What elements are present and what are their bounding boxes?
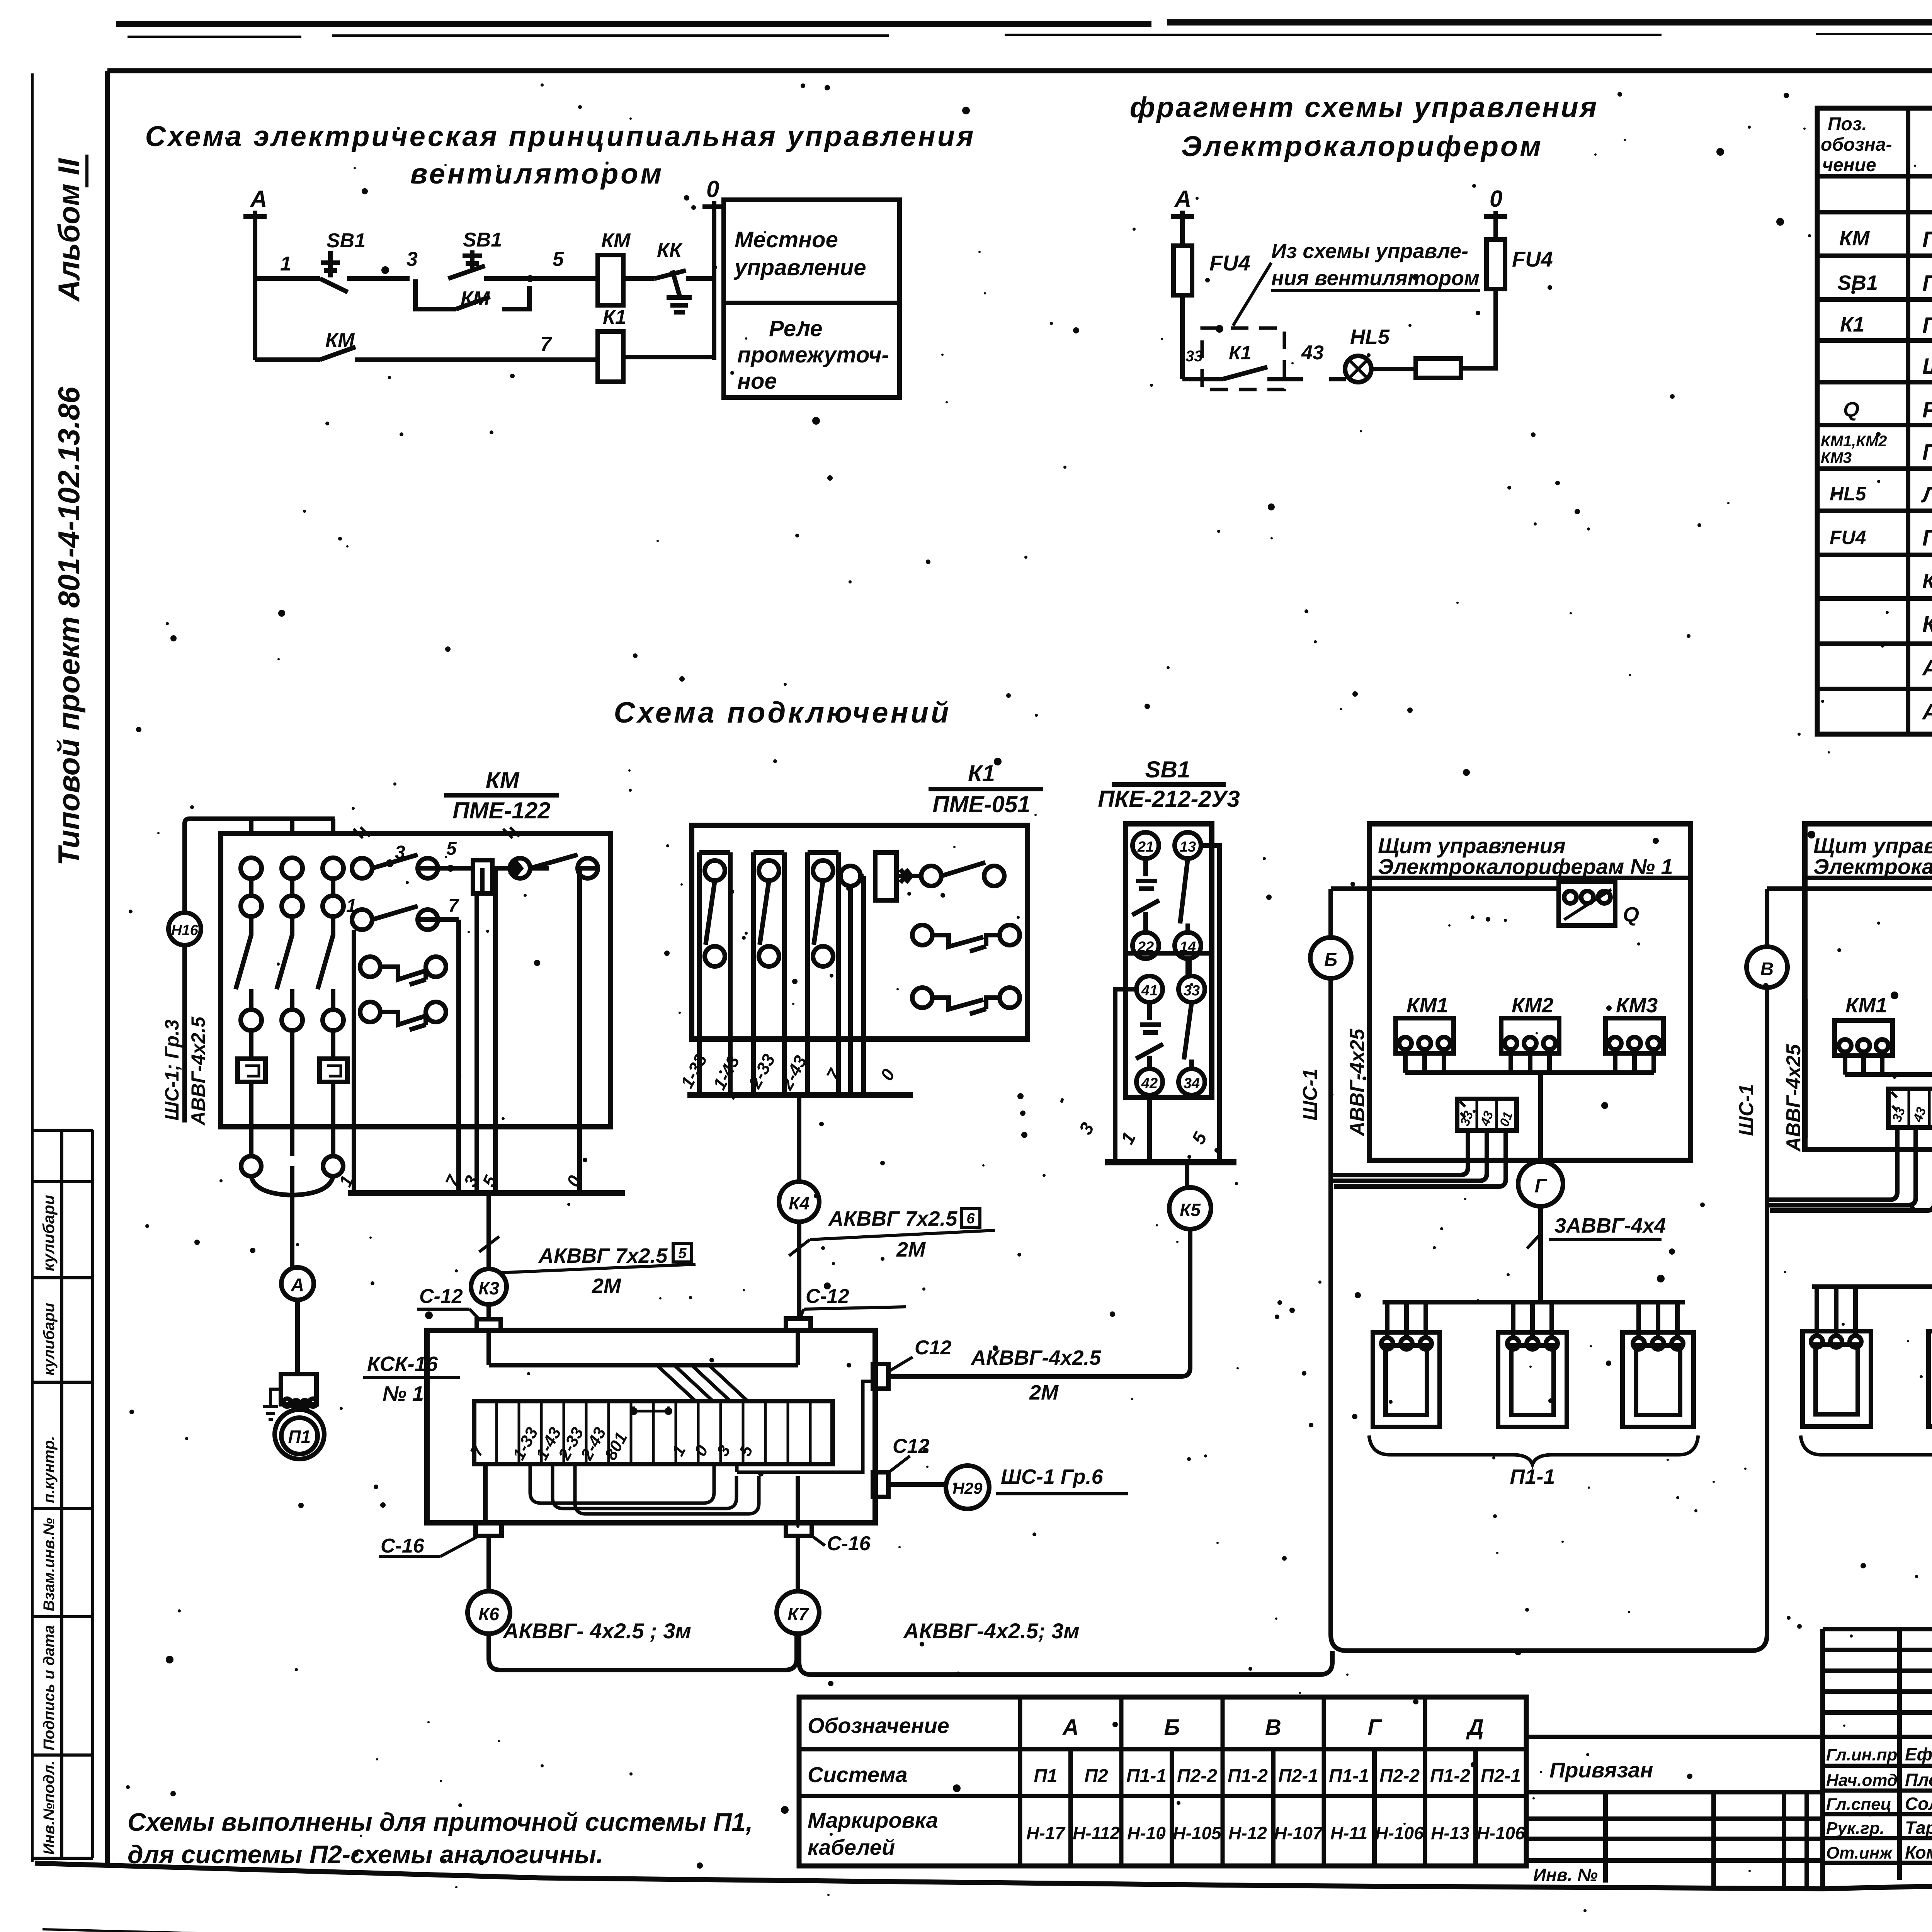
svg-text:Д: Д (1466, 1715, 1484, 1740)
svg-text:ПМЕ-051: ПМЕ-051 (932, 791, 1030, 817)
svg-text:Н-11: Н-11 (1330, 1823, 1367, 1843)
svg-text:АКВВГ-4х2.5: АКВВГ-4х2.5 (970, 1346, 1101, 1369)
top border double line (116, 21, 1932, 24)
svg-text:FU4: FU4 (1830, 527, 1866, 548)
svg-text:Пускатель магнитный: Пускатель магнитный (1922, 227, 1932, 252)
main frame (105, 71, 110, 1866)
fuse FU4 left (1173, 246, 1192, 295)
svg-text:5: 5 (446, 838, 457, 859)
svg-text:управление: управление (733, 255, 866, 280)
svg-text:От.инж: От.инж (1826, 1844, 1893, 1862)
aux 5-6 (912, 988, 932, 1008)
svg-text:КМ: КМ (1839, 227, 1870, 250)
terminal strip (1888, 1089, 1932, 1128)
G circle (1518, 1162, 1563, 1206)
K5 (1185, 1162, 1189, 1186)
svg-text:АКВВГ 7х2.5 мм²: АКВВГ 7х2.5 мм² (1922, 699, 1932, 724)
svg-text:№ 1: № 1 (383, 1382, 424, 1405)
SECTION:K1 (677, 760, 1043, 1318)
wire rung1 (255, 276, 320, 281)
svg-text:ШС-1: ШС-1 (1735, 1084, 1758, 1136)
svg-text:С12: С12 (893, 1435, 929, 1458)
svg-text:Н-12: Н-12 (1228, 1823, 1267, 1843)
svg-text:Реле: Реле (769, 316, 822, 341)
svg-text:Соловей: Соловей (1905, 1794, 1932, 1814)
svg-text:Б: Б (1324, 950, 1337, 970)
svg-text:SB1: SB1 (327, 230, 366, 252)
svg-text:Коробка соединительная КСК-16Т: Коробка соединительная КСК-16ТУ36.1753-7… (1922, 570, 1932, 593)
svg-text:К6: К6 (478, 1604, 499, 1624)
svg-text:Подпись и дата: Подпись и дата (41, 1625, 58, 1750)
svg-text:34: 34 (1184, 1075, 1200, 1092)
K6 (486, 1536, 491, 1591)
svg-text:FU4: FU4 (1209, 251, 1250, 275)
svg-text:п.кунтр.: п.кунтр. (41, 1436, 58, 1503)
svg-text:для системы П2-схемы аналогичн: для системы П2-схемы аналогичны. (128, 1840, 603, 1869)
svg-text:кулибари: кулибари (39, 1195, 58, 1271)
resistor (1416, 359, 1461, 378)
svg-text:Нач.отд: Нач.отд (1826, 1771, 1898, 1790)
svg-text:Схема электрическая принципиал: Схема электрическая принципиальная управ… (145, 120, 976, 152)
cable designation table (799, 1697, 1526, 1866)
svg-text:22: 22 (1137, 939, 1154, 955)
H16 circle (168, 913, 201, 945)
svg-text:кулибари: кулибари (41, 1303, 58, 1376)
svg-text:чение: чение (1822, 155, 1876, 175)
svg-text:Рубильник: Рубильник (1922, 397, 1932, 422)
svg-text:АВВГ-4х25: АВВГ-4х25 (1782, 1044, 1805, 1152)
svg-text:Инв.№подл.: Инв.№подл. (41, 1760, 58, 1855)
strip exits bend left (1331, 1131, 1468, 1175)
svg-text:43: 43 (1301, 342, 1324, 364)
legend box (724, 200, 900, 398)
vertical V1 down and across H2 (1331, 1175, 1767, 1651)
V circle (1747, 947, 1787, 988)
svg-text:АВВГ-4х2.5: АВВГ-4х2.5 (187, 1016, 209, 1126)
svg-text:К1: К1 (968, 760, 995, 786)
svg-text:HL5: HL5 (1830, 483, 1867, 505)
heater bus (1812, 1284, 1932, 1289)
svg-text:Щит управления электрокалорифе: Щит управления электрокалориферам (1922, 354, 1932, 379)
svg-text:С12: С12 (915, 1337, 951, 1359)
svg-text:2М: 2М (1029, 1381, 1059, 1404)
svg-text:КСК-16: КСК-16 (367, 1352, 438, 1376)
svg-text:Маркировка: Маркировка (808, 1808, 938, 1832)
svg-text:КК: КК (657, 239, 683, 262)
SECTION:KM (161, 767, 696, 1459)
svg-text:7: 7 (448, 896, 459, 916)
svg-text:Рук.гр.: Рук.гр. (1826, 1819, 1884, 1838)
left paper edge line (31, 73, 34, 1862)
terminal strip (474, 1401, 833, 1464)
svg-text:Q: Q (1843, 398, 1859, 421)
svg-text:КМ: КМ (601, 230, 631, 252)
svg-text:Ефремов: Ефремов (1905, 1744, 1932, 1764)
svg-text:КМ1: КМ1 (1406, 994, 1448, 1017)
svg-text:Н-13: Н-13 (1431, 1823, 1469, 1843)
svg-text:П1-1: П1-1 (1126, 1766, 1167, 1786)
svg-text:Пост управления кнопочный: Пост управления кнопочный (1922, 271, 1932, 296)
svg-text:Типовой проект 801-4-102.13.86: Типовой проект 801-4-102.13.86 (52, 386, 86, 866)
aux 3-4 (912, 925, 932, 945)
svg-text:АКВВГ 4х2.5 мм²: АКВВГ 4х2.5 мм² (1922, 655, 1932, 680)
svg-text:2М: 2М (592, 1274, 621, 1298)
svg-text:П1-1: П1-1 (1510, 1465, 1555, 1488)
brace (1801, 1435, 1932, 1464)
svg-text:33: 33 (1185, 348, 1203, 365)
svg-text:П2-1: П2-1 (1481, 1766, 1521, 1786)
svg-text:Гл.ин.пр.: Гл.ин.пр. (1826, 1745, 1902, 1764)
svg-text:2М: 2М (896, 1238, 926, 1261)
svg-text:промежуточ-: промежуточ- (737, 342, 889, 367)
svg-text:К1: К1 (603, 306, 626, 328)
KM aux parallel contact (415, 279, 529, 309)
svg-text:FU4: FU4 (1512, 247, 1553, 271)
svg-text:ное: ное (737, 369, 777, 394)
B circle (1310, 937, 1351, 978)
svg-text:Привязан: Привязан (1549, 1758, 1653, 1782)
fuse FU4 right (1486, 240, 1505, 289)
vertical drops to bus (354, 868, 580, 1191)
svg-text:Н-10: Н-10 (1127, 1823, 1166, 1843)
top entry ticks (354, 827, 519, 838)
svg-text:Пускатель магнитный ~220В ПМЕ-: Пускатель магнитный ~220В ПМЕ-051 (1922, 313, 1932, 338)
lower button (1136, 976, 1163, 1002)
SECTION:SB1 (889, 757, 1240, 1404)
svg-text:ШС-1 Гр.6: ШС-1 Гр.6 (1001, 1465, 1104, 1488)
svg-text:П2-2: П2-2 (1379, 1766, 1420, 1786)
svg-text:ния вентилятором: ния вентилятором (1271, 267, 1480, 290)
svg-text:Тарков: Тарков (1905, 1818, 1932, 1838)
SECTION:BOTTOM (799, 1629, 1932, 1910)
svg-text:К4: К4 (789, 1193, 810, 1213)
title block (1823, 1629, 1932, 1889)
svg-text:42: 42 (1141, 1075, 1158, 1092)
svg-text:Инв. №: Инв. № (1533, 1865, 1598, 1885)
bottom bus (348, 1190, 625, 1196)
svg-text:Комарова: Комарова (1905, 1842, 1932, 1862)
heater bus (1383, 1300, 1685, 1304)
heaters (1373, 1332, 1694, 1427)
svg-text:HL5: HL5 (1350, 325, 1390, 349)
SECTION:TOPMID (1130, 91, 1599, 389)
svg-text:Электрокалориферам № 1: Электрокалориферам № 1 (1378, 854, 1673, 879)
svg-text:К3: К3 (478, 1278, 499, 1298)
svg-text:К1: К1 (1229, 342, 1252, 364)
svg-text:В: В (1265, 1715, 1281, 1740)
svg-text:Гл.спец: Гл.спец (1826, 1795, 1891, 1814)
svg-text:КМ: КМ (486, 767, 520, 793)
svg-text:Электрокалориферам № 2: Электрокалориферам № 2 (1813, 854, 1932, 879)
svg-text:фрагмент схемы управления: фрагмент схемы управления (1130, 91, 1599, 123)
svg-text:П2-1: П2-1 (1278, 1766, 1318, 1786)
svg-text:SB1: SB1 (463, 229, 502, 251)
svg-text:КМ2: КМ2 (1512, 994, 1553, 1017)
svg-text:ШС-1: ШС-1 (1299, 1068, 1321, 1121)
inner wires (489, 1330, 798, 1365)
svg-text:Г: Г (1535, 1175, 1548, 1197)
svg-text:АКВВГ 7х2.5: АКВВГ 7х2.5 (538, 1244, 668, 1267)
svg-text:Схемы выполнены для приточной: Схемы выполнены для приточной системы П1… (128, 1808, 753, 1836)
svg-text:А: А (291, 1275, 304, 1296)
svg-text:КМ1: КМ1 (1845, 994, 1887, 1017)
A circle and motor (281, 1267, 314, 1300)
svg-text:А: А (1174, 186, 1191, 212)
svg-text:3АВВГ-4х4: 3АВВГ-4х4 (1554, 1214, 1666, 1237)
svg-text:А: А (250, 186, 267, 212)
svg-text:П1: П1 (1034, 1766, 1057, 1786)
contact K1 inside (1182, 367, 1303, 379)
svg-text:0: 0 (1490, 186, 1502, 212)
SECTION:SHIELD1 (1299, 824, 1767, 1651)
svg-text:КМ: КМ (325, 329, 355, 352)
svg-text:А: А (1062, 1715, 1079, 1740)
svg-text:Лампа сигнальная ~ 220В, зел.: Лампа сигнальная ~ 220В, зел. цвета (1921, 482, 1932, 507)
svg-text:SB1: SB1 (1837, 271, 1878, 294)
bus (687, 1092, 913, 1098)
svg-text:В: В (1760, 959, 1774, 980)
svg-text:ПМЕ-122: ПМЕ-122 (452, 798, 550, 823)
svg-text:АКВВГ 7х2.5: АКВВГ 7х2.5 (828, 1207, 957, 1230)
svg-text:П1-1: П1-1 (1329, 1766, 1369, 1786)
svg-text:Н-17: Н-17 (1026, 1823, 1066, 1843)
svg-text:3: 3 (406, 248, 418, 270)
svg-text:С-12: С-12 (419, 1285, 463, 1308)
contact columns (699, 852, 838, 1093)
svg-text:П2-2: П2-2 (1177, 1766, 1217, 1786)
coil column (850, 876, 864, 1093)
K3 drop (486, 1193, 491, 1269)
svg-text:П1: П1 (288, 1427, 311, 1447)
svg-text:Н-106: Н-106 (1476, 1823, 1525, 1843)
svg-text:С-16: С-16 (381, 1535, 425, 1557)
svg-text:П1-2: П1-2 (1430, 1766, 1470, 1786)
svg-text:К1: К1 (1840, 313, 1864, 336)
svg-text:КМ3: КМ3 (1616, 994, 1658, 1017)
svg-text:14: 14 (1180, 939, 1196, 955)
svg-text:Г: Г (1367, 1715, 1382, 1740)
svg-text:SB1: SB1 (1145, 757, 1190, 782)
top cable bracket to H16 (185, 819, 335, 913)
bottom outer lines (43, 1929, 1932, 1932)
SECTION:TOPLEFT (145, 120, 976, 398)
svg-text:АКВВГ- 4х2.5 ; 3м: АКВВГ- 4х2.5 ; 3м (502, 1619, 691, 1643)
svg-text:П1-2: П1-2 (1228, 1766, 1268, 1786)
svg-text:Н16: Н16 (171, 922, 199, 939)
svg-text:кабелей: кабелей (808, 1835, 895, 1859)
svg-text:1: 1 (280, 253, 291, 275)
svg-text:Обозначение: Обозначение (808, 1713, 949, 1738)
svg-text:С-16: С-16 (827, 1532, 871, 1555)
K4 (797, 1095, 801, 1180)
svg-text:0: 0 (706, 176, 719, 202)
svg-text:Поз.: Поз. (1828, 114, 1867, 134)
svg-text:АКВВГ-4х2.5; 3м: АКВВГ-4х2.5; 3м (903, 1619, 1080, 1643)
svg-text:Схема подключений: Схема подключений (614, 696, 951, 729)
svg-text:К7: К7 (787, 1604, 809, 1624)
svg-text:7: 7 (540, 333, 552, 355)
svg-text:Q: Q (1623, 903, 1639, 926)
bus (1105, 1159, 1236, 1165)
svg-text:Н-106: Н-106 (1375, 1823, 1424, 1843)
svg-text:Б: Б (1164, 1715, 1180, 1740)
svg-text:Н-105: Н-105 (1173, 1823, 1222, 1843)
svg-text:Из схемы управле-: Из схемы управле- (1271, 240, 1468, 263)
svg-text:6: 6 (966, 1211, 975, 1227)
heaters (1803, 1331, 1932, 1427)
dot junction (527, 275, 534, 282)
svg-text:К5: К5 (1180, 1200, 1201, 1220)
svg-text:ШС-1; Гр.3: ШС-1; Гр.3 (161, 1019, 183, 1121)
svg-text:21: 21 (1137, 839, 1154, 855)
svg-text:Альбом II: Альбом II (52, 158, 86, 302)
svg-text:вентилятором: вентилятором (410, 158, 664, 190)
svg-text:Взам.инв.№: Взам.инв.№ (41, 1518, 58, 1611)
svg-text:ПКЕ-212-2У3: ПКЕ-212-2У3 (1098, 786, 1240, 812)
left stamp column (32, 1130, 93, 1858)
SECTION:TABLE (1817, 108, 1932, 734)
power columns (236, 858, 347, 1268)
svg-text:Предохранитель со вставкой ПВД: Предохранитель со вставкой ПВД-6А (1922, 526, 1932, 551)
svg-text:13: 13 (1180, 839, 1196, 855)
svg-text:Плохих: Плохих (1905, 1770, 1932, 1790)
svg-text:Система: Система (808, 1762, 908, 1787)
aux rows 3,4 (360, 957, 380, 977)
svg-text:Н29: Н29 (952, 1479, 983, 1497)
svg-text:обозна-: обозна- (1821, 134, 1892, 155)
svg-text:Пускатель магнитный ~ 220В ПМЕ: Пускатель магнитный ~ 220В ПМЕ-011 (1922, 440, 1932, 465)
rung2 KM contact (255, 347, 598, 360)
svg-text:41: 41 (1141, 983, 1158, 999)
brace (1369, 1435, 1698, 1464)
svg-text:Местное: Местное (735, 227, 838, 252)
SECTION:KSK (363, 1285, 1332, 1675)
K7 (796, 1536, 800, 1591)
svg-text:5: 5 (678, 1245, 687, 1262)
svg-text:КМ3: КМ3 (1821, 449, 1852, 466)
svg-text:АВВГ-4х25: АВВГ-4х25 (1346, 1028, 1369, 1137)
svg-text:5: 5 (553, 248, 564, 270)
Q switch (1559, 881, 1615, 925)
svg-text:КМ: КМ (461, 287, 490, 310)
svg-text:П2: П2 (1084, 1766, 1108, 1786)
svg-text:Электрокалорифером: Электрокалорифером (1181, 130, 1543, 162)
upper button (1133, 832, 1159, 859)
terminal strip (1457, 1099, 1517, 1131)
dashed K1 box (1202, 328, 1284, 389)
rails (1115, 845, 1219, 1160)
svg-text:Кабели ГОСТ 1508-78*Е: Кабели ГОСТ 1508-78*Е (1922, 612, 1932, 637)
SECTION:SHIELD2 (1735, 824, 1932, 1488)
svg-text:Н-107: Н-107 (1274, 1823, 1323, 1843)
binding band (1526, 1735, 1932, 1739)
svg-text:Н-112: Н-112 (1073, 1823, 1120, 1843)
C-16 connectors (476, 1523, 502, 1536)
